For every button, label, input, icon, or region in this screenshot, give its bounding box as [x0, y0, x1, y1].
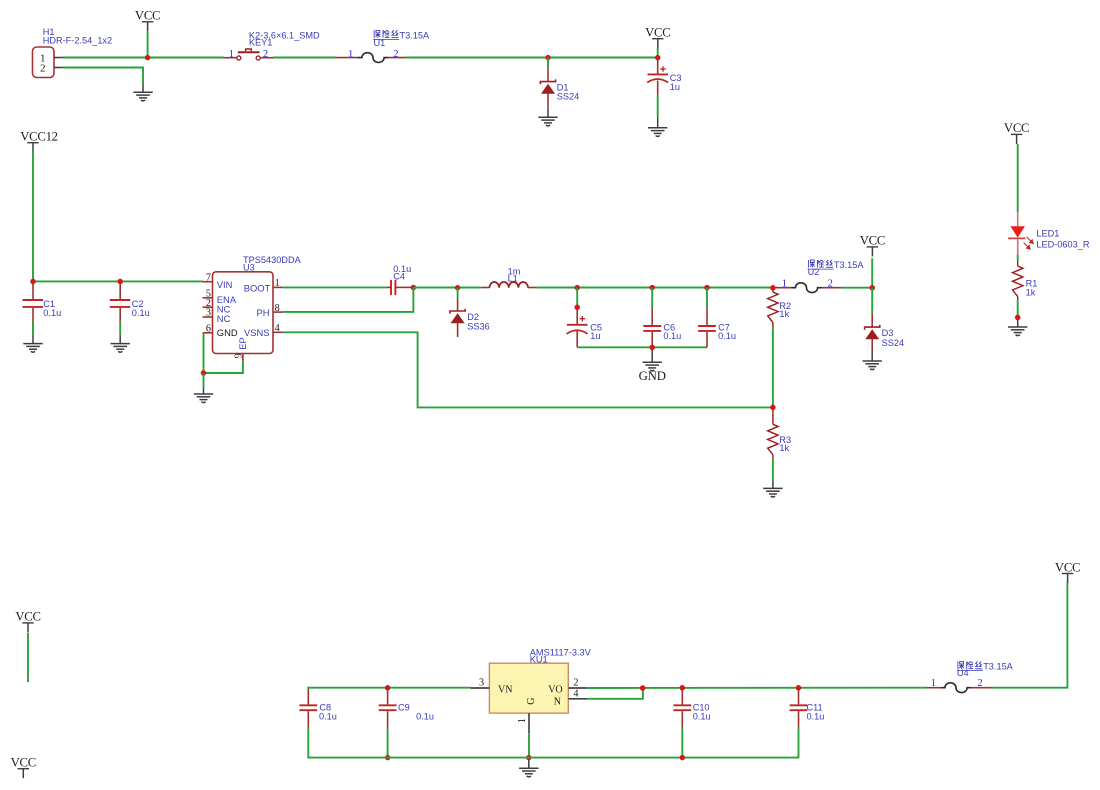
wire input rail to KU1.3 [308, 687, 470, 689]
ground (C2) [111, 335, 130, 352]
svg-text:2: 2 [977, 678, 982, 689]
pin U3.9 EP [242, 354, 244, 362]
junction (C1) [30, 279, 36, 285]
junction (C5 plus) [574, 305, 580, 311]
capacitor C3 1u polarized [647, 60, 668, 96]
diode D2 SS36 [450, 298, 465, 337]
wire LED1 to R1 [1017, 255, 1019, 261]
svg-text:C9: C9 [398, 702, 410, 712]
pin U3.6 GND [203, 332, 213, 334]
wire BOOT to C4 [283, 286, 387, 288]
wire VCC stub down [27, 633, 29, 682]
junction (VCC / D3) [869, 285, 875, 291]
svg-text:VCC: VCC [135, 9, 160, 23]
ground (GND net label) [643, 350, 662, 371]
svg-text:1: 1 [931, 678, 936, 689]
pin KU1.4 N [568, 698, 587, 700]
wire to C5 [576, 288, 578, 306]
ground (KU1) [519, 760, 538, 777]
svg-text:U2: U2 [808, 267, 820, 277]
wire VCC to rail end [657, 48, 659, 58]
junction (C4 / PH) [411, 285, 417, 291]
wire U2.2 to VCC/D3 [842, 287, 872, 289]
junction (R2 / fuse U2) [770, 285, 776, 291]
pin U3.8 PH [273, 311, 283, 313]
wire C8 to bottom rail [307, 727, 309, 758]
svg-text:LED-0603_R: LED-0603_R [1036, 239, 1089, 249]
svg-text:VIN: VIN [217, 279, 233, 290]
junction (R1 gnd) [1015, 315, 1021, 321]
resistor R2 1k [768, 290, 778, 327]
ground (D3) [863, 353, 882, 370]
LED LED1 red [1008, 212, 1033, 255]
svg-text:G: G [526, 698, 537, 705]
resistor R1 1k [1013, 260, 1023, 300]
power flag VCC (bottom left, floating) [11, 756, 36, 779]
svg-text:BOOT: BOOT [244, 282, 271, 293]
pin U3.5 ENA [203, 297, 213, 299]
regulator KU1 AMS1117-3.3V body [489, 663, 568, 713]
ground (H1 pin2) [133, 83, 152, 101]
wire C10 to bottom rail [681, 727, 683, 757]
wire C3 to ground [657, 96, 659, 118]
capacitor C4 0.1u [387, 280, 411, 295]
svg-text:3: 3 [206, 308, 211, 319]
junction (C10 top) [680, 685, 686, 691]
svg-text:SS36: SS36 [467, 321, 489, 331]
pin KU1.2 VO [568, 687, 587, 689]
capacitor C9 0.1u [379, 689, 397, 727]
svg-text:VN: VN [498, 684, 512, 695]
wire VCC stub to rail [147, 31, 149, 57]
svg-text:1: 1 [229, 49, 234, 60]
svg-text:NC: NC [217, 313, 231, 324]
wire C9 to bottom rail [387, 727, 389, 758]
svg-text:VCC: VCC [15, 610, 40, 624]
pin KU1.3 VN [471, 687, 490, 689]
svg-text:U4: U4 [957, 668, 969, 678]
svg-text:N: N [554, 697, 561, 708]
wire R3 to ground [772, 459, 774, 482]
power flag VCC (bottom left, wired) [15, 610, 40, 633]
svg-text:LED1: LED1 [1036, 229, 1059, 239]
svg-text:GND: GND [217, 327, 238, 338]
svg-text:U3: U3 [243, 263, 255, 273]
svg-text:0.1u: 0.1u [718, 331, 736, 341]
diode D3 SS24 [865, 313, 880, 352]
junction (C6 bottom) [649, 345, 655, 351]
output rail L1 to R2/fuse [537, 287, 776, 289]
wire U1.2 to VCC/C3 [406, 57, 658, 59]
junction (C9 top) [385, 685, 391, 691]
svg-text:1: 1 [517, 718, 528, 723]
wire C11 to bottom rail corner [798, 727, 800, 758]
svg-text:T3.15A: T3.15A [834, 260, 864, 270]
label baoxiansi T3.15A (U2) [809, 260, 833, 268]
label baoxiansi T3.15A (U4) [958, 661, 982, 669]
wire R2 to feedback node [772, 327, 774, 408]
fuse U4 baoxiansi T3.15A [927, 683, 992, 693]
svg-text:1: 1 [275, 278, 280, 289]
svg-text:7: 7 [206, 272, 211, 283]
wire R1 to ground [1017, 300, 1019, 317]
connector H1 HDR-F-2.54_1x2 [33, 47, 63, 78]
capacitor C5 1u polarized [567, 309, 588, 347]
svg-text:1: 1 [348, 49, 353, 60]
wire KEY1.2 to U1.1 [273, 57, 336, 59]
capacitor C1 0.1u [23, 284, 43, 321]
svg-text:EP: EP [237, 337, 248, 350]
svg-text:SS24: SS24 [557, 92, 579, 102]
fuse U1 baoxiansi T3.15A [336, 53, 406, 63]
svg-text:0.1u: 0.1u [663, 331, 681, 341]
wire junction to ground [203, 373, 205, 388]
capacitor C11 0.1u [790, 689, 808, 727]
capacitor C10 0.1u [673, 689, 691, 727]
wire C8 corner to rail [307, 687, 309, 689]
wire junction to D1 [547, 58, 549, 68]
wire U3 GND+EP to ground [204, 333, 243, 373]
junction (U3 gnd) [201, 370, 207, 376]
junction (C11 top) [796, 685, 802, 691]
svg-text:2: 2 [393, 49, 398, 60]
wire junction to D2 [457, 288, 459, 299]
svg-text:T3.15A: T3.15A [983, 662, 1013, 672]
fuse U2 baoxiansi T3.15A [775, 283, 842, 293]
pin U3.2 NC [203, 306, 213, 308]
svg-text:1k: 1k [1026, 288, 1036, 298]
pin U3.4 VSNS [273, 331, 283, 333]
svg-text:0.1u: 0.1u [807, 712, 825, 722]
wire H1.2 to ground [63, 68, 144, 84]
capacitor bottom bus wire [577, 346, 707, 348]
junction (C10 bottom) [680, 755, 686, 761]
svg-text:1: 1 [782, 278, 787, 289]
svg-text:HDR-F-2.54_1x2: HDR-F-2.54_1x2 [43, 36, 112, 46]
wire VCC to LED1 [1017, 144, 1019, 212]
junction (VCC / top rail) [145, 55, 151, 61]
wire C1 to ground [32, 321, 34, 335]
svg-text:2: 2 [573, 677, 578, 688]
svg-text:4: 4 [573, 689, 578, 700]
svg-text:C4: C4 [393, 271, 405, 281]
junction (C9 bottom) [385, 755, 391, 761]
ground (C1) [23, 335, 42, 352]
wire C4 junction down to PH wire [283, 288, 414, 312]
ground (C3) [648, 118, 667, 137]
junction (D2 tap) [455, 285, 461, 291]
svg-text:PH: PH [256, 307, 269, 318]
svg-text:9: 9 [233, 353, 244, 358]
svg-text:6: 6 [206, 323, 211, 334]
junction (KU1 gnd) [526, 755, 532, 761]
svg-text:VCC: VCC [11, 756, 36, 770]
power flag VCC (U2 out) [860, 234, 885, 257]
svg-text:0.1u: 0.1u [132, 308, 150, 318]
power flag VCC (LED1) [1004, 121, 1029, 144]
svg-text:0.1u: 0.1u [416, 712, 434, 722]
svg-text:3: 3 [479, 678, 484, 689]
junction (C7 top) [704, 285, 710, 291]
svg-text:SS24: SS24 [882, 338, 904, 348]
svg-text:VCC: VCC [860, 234, 885, 248]
svg-text:0.1u: 0.1u [43, 308, 61, 318]
junction (pin4 tie) [640, 685, 646, 691]
wire VSNS feedback [283, 332, 773, 407]
junction (D1 tap) [545, 55, 551, 61]
wire U4.2 to VCC riser [992, 582, 1068, 687]
svg-text:U1: U1 [374, 38, 386, 48]
ground (R3) [763, 482, 782, 497]
wire VCC12 down to input rail [32, 151, 34, 282]
svg-text:VO: VO [548, 684, 562, 695]
diode D1 SS24 [540, 68, 555, 107]
svg-text:L1: L1 [508, 274, 518, 284]
junction (C3 / rail end) [655, 55, 661, 61]
wire KU1.4 to output rail [587, 688, 643, 699]
pin U3.7 VIN [203, 281, 213, 283]
capacitor C6 0.1u [643, 288, 661, 346]
svg-text:KU1: KU1 [530, 655, 548, 665]
svg-text:0.1u: 0.1u [319, 712, 337, 722]
svg-text:VCC: VCC [1055, 560, 1080, 574]
junction (C6 top) [649, 285, 655, 291]
input rail wire [33, 280, 203, 282]
capacitor C8 0.1u [299, 687, 317, 727]
op-amp U3 TPS5430DDA body [213, 272, 274, 354]
svg-text:GND: GND [639, 369, 666, 383]
resistor R3 1k [768, 410, 778, 459]
ground (R1) [1008, 319, 1027, 336]
capacitor C2 0.1u [110, 284, 130, 321]
wire KU1.2 output rail [587, 687, 926, 689]
svg-text:1u: 1u [670, 82, 680, 92]
svg-text:1u: 1u [590, 331, 600, 341]
svg-text:VCC12: VCC12 [20, 130, 58, 144]
pin U3.1 BOOT [273, 286, 283, 288]
wire PH rail to L1 [413, 287, 480, 289]
pushbutton KEY1 K2-3.6x6.1_SMD [224, 49, 274, 60]
power flag VCC (bottom right) [1055, 560, 1080, 583]
svg-text:0.1u: 0.1u [693, 712, 711, 722]
pin U3.3 NC [203, 316, 213, 318]
ground (U3) [194, 388, 213, 403]
svg-text:KEY1: KEY1 [249, 37, 273, 47]
svg-text:VCC: VCC [645, 26, 670, 40]
power flag VCC12 [20, 130, 58, 151]
capacitor C7 0.1u [698, 288, 716, 348]
svg-text:1k: 1k [779, 309, 789, 319]
svg-text:1k: 1k [779, 443, 789, 453]
wire junction to D3 [871, 288, 873, 314]
svg-text:VCC: VCC [1004, 121, 1029, 135]
power flag VCC (C3) [645, 26, 670, 49]
svg-text:2: 2 [263, 49, 268, 60]
svg-text:2: 2 [40, 62, 46, 74]
junction (feedback node) [770, 405, 776, 411]
junction (C2) [117, 279, 123, 285]
svg-text:2: 2 [828, 278, 833, 289]
power flag VCC (top rail) [135, 9, 160, 32]
label baoxiansi T3.15A (U1) [374, 30, 398, 38]
inductor L1 1m [481, 282, 537, 288]
wire KU1 gnd to bottom rail [528, 733, 530, 758]
svg-text:T3.15A: T3.15A [400, 31, 430, 41]
svg-text:VSNS: VSNS [244, 327, 270, 338]
bottom ground rail [307, 757, 798, 759]
wire VCC down [871, 258, 873, 287]
junction (C5 tap) [574, 285, 580, 291]
wire H1.1 to KEY1.1 [63, 57, 224, 59]
svg-text:4: 4 [275, 323, 280, 334]
pin KU1.1 GND stem [528, 713, 530, 733]
wire C2 to ground [119, 321, 121, 335]
svg-text:D3: D3 [882, 328, 894, 338]
ground (D1) [538, 107, 557, 126]
svg-text:8: 8 [275, 303, 280, 314]
